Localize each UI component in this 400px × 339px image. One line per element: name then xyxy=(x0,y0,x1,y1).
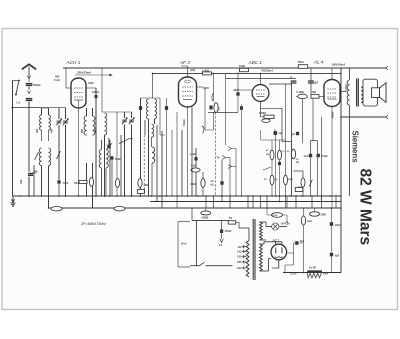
resistor 20k b xyxy=(191,172,206,196)
svg-text:AF 3: AF 3 xyxy=(179,60,190,65)
switch wave a xyxy=(35,152,39,160)
wire L2b down xyxy=(48,166,50,208)
svg-text:050: 050 xyxy=(81,128,84,133)
svg-text:TA: TA xyxy=(217,157,220,160)
wire screen bus y73 xyxy=(153,72,342,74)
wire left rail xyxy=(12,81,42,197)
wire mains bottom xyxy=(190,265,233,267)
wire osc top xyxy=(141,73,161,98)
wire x213 xyxy=(205,73,214,130)
coil L2b xyxy=(49,148,51,166)
label fuse B xyxy=(323,272,329,275)
label 110 xyxy=(237,245,242,249)
ground main xyxy=(11,196,16,206)
power bus drops xyxy=(206,196,336,208)
svg-text:050: 050 xyxy=(95,128,98,133)
label 050b xyxy=(95,128,98,133)
svg-text:150μF: 150μF xyxy=(321,156,328,158)
wire x285 xyxy=(285,84,287,208)
label Siemens xyxy=(351,131,360,164)
label ABC1 xyxy=(248,60,263,65)
svg-text:0,1MΩ: 0,1MΩ xyxy=(30,173,37,175)
svg-text:1kΩ: 1kΩ xyxy=(307,220,312,223)
wire x34 xyxy=(33,165,35,196)
label 180V xyxy=(203,87,209,90)
wire top bus hook xyxy=(386,66,388,70)
capacitor 1mF xyxy=(304,154,313,158)
label 450b xyxy=(51,128,54,133)
capacitor 400pF xyxy=(19,170,38,184)
box 30k xyxy=(295,188,303,192)
wire grid link xyxy=(238,89,252,91)
svg-text:AL 4: AL 4 xyxy=(313,60,324,65)
wire L1 tops xyxy=(42,107,49,109)
label mAs xyxy=(190,69,195,72)
resistor 2M right xyxy=(310,208,326,217)
wire x313 d xyxy=(313,99,322,202)
capacitor 50pF c xyxy=(57,180,69,196)
wire primary top xyxy=(239,228,249,241)
wire ABC1 top xyxy=(260,73,262,84)
switch contact a xyxy=(228,147,236,151)
wire x192 xyxy=(191,107,193,196)
bracket 10w xyxy=(178,222,190,268)
coil L5a xyxy=(147,99,149,196)
speaker xyxy=(363,79,386,106)
wire AF3 cath xyxy=(187,107,189,196)
coil L3a xyxy=(84,108,86,196)
capacitor antenna 2 xyxy=(26,91,33,101)
switch hook xyxy=(202,126,204,134)
resistor 2,5k xyxy=(211,181,215,187)
svg-text:kΩ: kΩ xyxy=(211,185,214,187)
transformer sec HT xyxy=(260,244,263,271)
capacitor 5kpF xyxy=(139,98,142,196)
capacitor 5pF xyxy=(308,68,319,96)
wire x160 xyxy=(160,98,165,135)
wire HT bus y68 xyxy=(63,67,386,69)
wire mains top xyxy=(192,208,229,220)
label AF3 xyxy=(179,60,190,65)
label 40mA xyxy=(332,111,335,118)
svg-text:LA: LA xyxy=(17,101,21,105)
svg-text:240: 240 xyxy=(237,266,242,270)
svg-text:82 W Mars: 82 W Mars xyxy=(357,169,374,246)
wire ACH1 anode xyxy=(66,68,71,88)
label 4V35mA xyxy=(260,69,273,73)
label 01M left xyxy=(30,173,37,175)
capacitor k2 xyxy=(220,160,223,202)
svg-text:Siemens: Siemens xyxy=(351,131,360,164)
label 250V 53mA xyxy=(75,71,112,77)
svg-text:50pF: 50pF xyxy=(63,183,69,185)
resistor 1,4k xyxy=(202,70,212,75)
capacitor 6uF xyxy=(330,253,340,273)
wire ground bus y196 xyxy=(13,195,341,197)
label 125 xyxy=(237,250,242,254)
wire AL4 top xyxy=(331,68,333,80)
resistor 17k xyxy=(267,208,287,222)
capacitor 1uF b xyxy=(291,132,299,136)
capacitor 68pF xyxy=(234,73,240,112)
transformer mains primary xyxy=(246,241,249,278)
transformer taps xyxy=(243,245,247,269)
svg-text:1μF: 1μF xyxy=(279,132,284,135)
svg-text:125: 125 xyxy=(237,250,242,254)
svg-text:10kΩ: 10kΩ xyxy=(239,65,245,68)
transformer output core xyxy=(357,79,359,107)
resistor 1k xyxy=(301,208,311,273)
coil L4 xyxy=(105,113,107,196)
transformer output prim xyxy=(347,68,349,196)
svg-text:50pF: 50pF xyxy=(115,158,121,161)
transformer sec heater1 xyxy=(260,222,263,240)
wire mains left xyxy=(196,220,198,265)
trimmer C t1 xyxy=(56,108,61,180)
wire antenna to bus xyxy=(28,177,30,197)
resistor on bus b xyxy=(114,207,125,211)
plug LA xyxy=(219,239,223,247)
svg-text:70kΩ: 70kΩ xyxy=(298,61,304,64)
resistor 10k xyxy=(239,65,249,73)
wire AZ1 plates xyxy=(260,242,283,245)
capacitor gk xyxy=(278,162,281,165)
svg-text:1mF: 1mF xyxy=(304,156,309,158)
switch contact c xyxy=(228,165,236,169)
svg-text:68pF: 68pF xyxy=(234,89,240,92)
tube ACH1 xyxy=(71,78,86,108)
capacitor 8uF xyxy=(294,240,305,245)
label 050a xyxy=(81,128,84,133)
svg-text:TS: TS xyxy=(229,217,233,220)
wire ABC1 cath xyxy=(274,129,276,131)
svg-text:8μF: 8μF xyxy=(300,240,305,243)
capacitor 1uF xyxy=(274,131,284,196)
wire speaker return y117 xyxy=(341,116,386,118)
wire y171 xyxy=(294,171,304,196)
wire AZ1 out xyxy=(287,243,293,253)
svg-text:20kΩ: 20kΩ xyxy=(74,183,80,185)
tube ABC1 xyxy=(252,85,269,102)
svg-text:6μF: 6μF xyxy=(335,255,340,258)
label 5,6kO xyxy=(183,119,186,126)
wire ACH1 grid xyxy=(86,87,96,89)
coil L3b xyxy=(93,108,95,208)
capacitor 150uF xyxy=(317,154,329,158)
wire y112 xyxy=(208,111,238,113)
resistor VB xyxy=(138,179,149,188)
resistor 2M mains xyxy=(201,208,211,220)
wire x157 xyxy=(156,125,158,202)
antenna xyxy=(22,64,36,75)
switch sr xyxy=(309,180,312,187)
svg-text:450: 450 xyxy=(36,128,39,133)
svg-text:450: 450 xyxy=(19,179,23,184)
resistor 03M xyxy=(278,150,286,160)
resistor on bus a xyxy=(51,207,62,211)
capacitor 500pF xyxy=(26,83,41,87)
svg-text:0,1MΩ: 0,1MΩ xyxy=(259,113,266,115)
label AL4 xyxy=(313,60,324,65)
switch ws xyxy=(263,167,271,170)
wire bus y208 xyxy=(48,207,341,209)
label 4,7M xyxy=(287,151,290,153)
capacitor 1pF xyxy=(290,76,297,83)
svg-text:17kΩ: 17kΩ xyxy=(272,215,278,217)
svg-text:Fu 50: Fu 50 xyxy=(309,265,317,269)
svg-text:5,6kΩ: 5,6kΩ xyxy=(183,119,186,126)
wire antenna down xyxy=(28,87,30,173)
wire top link xyxy=(42,107,66,109)
svg-text:ACH 1: ACH 1 xyxy=(66,60,81,65)
capacitor 50pF b xyxy=(240,104,243,196)
label 220 xyxy=(237,260,242,264)
svg-text:(2MΩ): (2MΩ) xyxy=(202,217,209,220)
wire x236 xyxy=(235,149,237,197)
resistor 600 xyxy=(214,103,221,113)
svg-text:0,1MΩ: 0,1MΩ xyxy=(297,91,304,94)
svg-text:LA: LA xyxy=(219,244,223,247)
svg-text:MΩ: MΩ xyxy=(296,162,300,164)
capacitor 50pF a xyxy=(106,138,121,196)
svg-text:10 w: 10 w xyxy=(181,242,188,246)
label 450a xyxy=(36,128,39,133)
capacitor 180pF xyxy=(92,88,100,196)
wire x182 xyxy=(181,130,183,196)
coil L2a xyxy=(39,148,41,166)
resistor 47k xyxy=(266,149,274,160)
wire x121 xyxy=(120,135,122,196)
svg-text:150: 150 xyxy=(237,255,242,259)
svg-text:5pF: 5pF xyxy=(314,82,319,85)
resistor 0,1M xyxy=(259,113,274,122)
trimmer C t4 xyxy=(129,112,134,196)
tube AL4 xyxy=(324,80,340,107)
capacitor blk a xyxy=(209,106,212,110)
box VB xyxy=(138,190,145,194)
switch contact b xyxy=(217,156,231,160)
label 100V xyxy=(88,82,94,85)
label ZF xyxy=(80,222,106,226)
capacitor el1 xyxy=(89,178,93,187)
coil L7 xyxy=(99,140,108,196)
wire az down xyxy=(285,253,294,273)
capacitor osc2 xyxy=(165,98,168,196)
wire sec1 xyxy=(260,222,267,240)
wire AF3 top xyxy=(181,66,188,77)
label 82 W Mars xyxy=(357,169,374,246)
coil L5b xyxy=(155,99,157,124)
resistor 7k box xyxy=(311,95,325,99)
svg-text:2MΩ: 2MΩ xyxy=(321,214,326,217)
wire y84 link xyxy=(269,83,292,85)
tube AZ1 xyxy=(271,244,287,260)
resistor 10kb xyxy=(115,179,119,188)
wire mid link xyxy=(102,111,132,113)
switch LA xyxy=(13,80,21,105)
resistor 20k xyxy=(74,180,87,185)
svg-text:240V: 240V xyxy=(323,272,329,275)
wire AF3 anode xyxy=(197,86,204,88)
svg-text:1MΩ: 1MΩ xyxy=(144,185,149,187)
svg-text:(1W): (1W) xyxy=(190,69,195,72)
switch wave b xyxy=(57,151,61,159)
svg-text:180V: 180V xyxy=(203,87,209,90)
svg-text:100V,30mA: 100V,30mA xyxy=(332,63,346,67)
coil L1a xyxy=(40,108,42,130)
label fuse A xyxy=(290,272,296,275)
wire ACH1 cath xyxy=(78,108,80,196)
wire U link xyxy=(311,141,318,197)
switch band xyxy=(119,139,133,144)
trimmer C t2 xyxy=(63,108,68,196)
fuse TS xyxy=(228,217,239,228)
svg-text:4V(35)mA: 4V(35)mA xyxy=(260,69,273,73)
switch mains xyxy=(200,262,205,266)
coil L6 xyxy=(152,124,155,196)
label AZ1 xyxy=(272,239,280,243)
resistor 5k xyxy=(191,165,200,173)
wire x117 xyxy=(116,112,118,196)
capacitor 25uF xyxy=(330,208,341,252)
svg-text:250pF: 250pF xyxy=(225,230,232,233)
svg-text:500pF: 500pF xyxy=(33,83,41,87)
svg-text:ZF=468/473kHz: ZF=468/473kHz xyxy=(80,222,106,226)
svg-text:250V,53mA: 250V,53mA xyxy=(76,71,91,75)
label 100V30mA xyxy=(332,63,346,67)
label 01M 7k xyxy=(297,91,317,94)
lamp pilot xyxy=(266,223,290,231)
wire x102 xyxy=(101,68,103,112)
svg-text:450: 450 xyxy=(51,128,54,133)
resistor 0,1M oval xyxy=(296,94,307,143)
svg-text:8 mA: 8 mA xyxy=(54,79,60,82)
wire AZ1 heater xyxy=(260,259,279,272)
wire x110b xyxy=(109,140,111,196)
coil L1b xyxy=(42,108,51,141)
wire y140 link xyxy=(261,130,286,140)
wire speaker return hook xyxy=(386,115,388,119)
capacitor 250pF xyxy=(220,220,232,238)
wire y78 link xyxy=(226,78,297,80)
wire x145 xyxy=(143,120,146,196)
wire x230 xyxy=(229,158,231,202)
switch hook2 xyxy=(212,93,214,101)
wire L2a down xyxy=(41,166,43,196)
wire AL4 cath xyxy=(331,107,333,209)
bus junction ticks xyxy=(20,195,341,197)
wire x196 xyxy=(195,148,197,196)
transformer output sec xyxy=(361,87,363,103)
svg-text:1,2μF: 1,2μF xyxy=(190,153,197,156)
resistor 70k xyxy=(298,61,308,68)
label 150 xyxy=(237,255,242,259)
wire x205 xyxy=(204,87,206,130)
wire right rail x341 xyxy=(340,68,342,273)
resistor 05Mb xyxy=(291,149,299,164)
resistor 1M xyxy=(284,175,294,185)
svg-text:ABC 1: ABC 1 xyxy=(248,60,263,65)
fuse zigzag xyxy=(307,273,321,278)
wire x279 xyxy=(279,140,281,202)
wire antenna lead xyxy=(27,75,30,82)
wire bus y201 xyxy=(150,201,341,203)
wire x172 xyxy=(171,130,173,196)
svg-text:1MΩ: 1MΩ xyxy=(288,179,293,181)
wire x291 col xyxy=(291,84,293,196)
wire x225 xyxy=(225,73,227,145)
svg-text:kΩ: kΩ xyxy=(266,154,269,156)
svg-text:110: 110 xyxy=(237,245,242,249)
wire x177 xyxy=(176,112,178,208)
svg-text:≈6V0,5A: ≈6V0,5A xyxy=(281,223,291,226)
label 240 xyxy=(237,266,242,270)
fuse Fu50 xyxy=(307,265,322,271)
resistor 03r xyxy=(298,178,306,189)
svg-text:20kΩ: 20kΩ xyxy=(191,183,197,186)
svg-text:100V: 100V xyxy=(88,82,94,85)
resistor 05M xyxy=(264,175,278,185)
svg-text:0,15A: 0,15A xyxy=(290,272,296,275)
svg-text:220: 220 xyxy=(237,260,242,264)
wire abc d1 xyxy=(261,101,292,141)
svg-text:25μF: 25μF xyxy=(335,224,341,227)
wire x162 xyxy=(161,131,163,208)
svg-text:7kΩ: 7kΩ xyxy=(312,91,317,94)
transformer core mains xyxy=(253,219,255,280)
capacitor 1,2uF xyxy=(190,153,198,161)
wire AL4 anode xyxy=(340,84,346,92)
wire x272 xyxy=(271,140,273,196)
link dashed xyxy=(215,112,217,196)
label 28V 8mA xyxy=(54,76,60,83)
label ACH1 xyxy=(66,60,81,65)
trimmer C t3 xyxy=(122,112,127,196)
tube AF3 xyxy=(179,77,197,107)
wire bottom bus y272 xyxy=(283,272,341,274)
